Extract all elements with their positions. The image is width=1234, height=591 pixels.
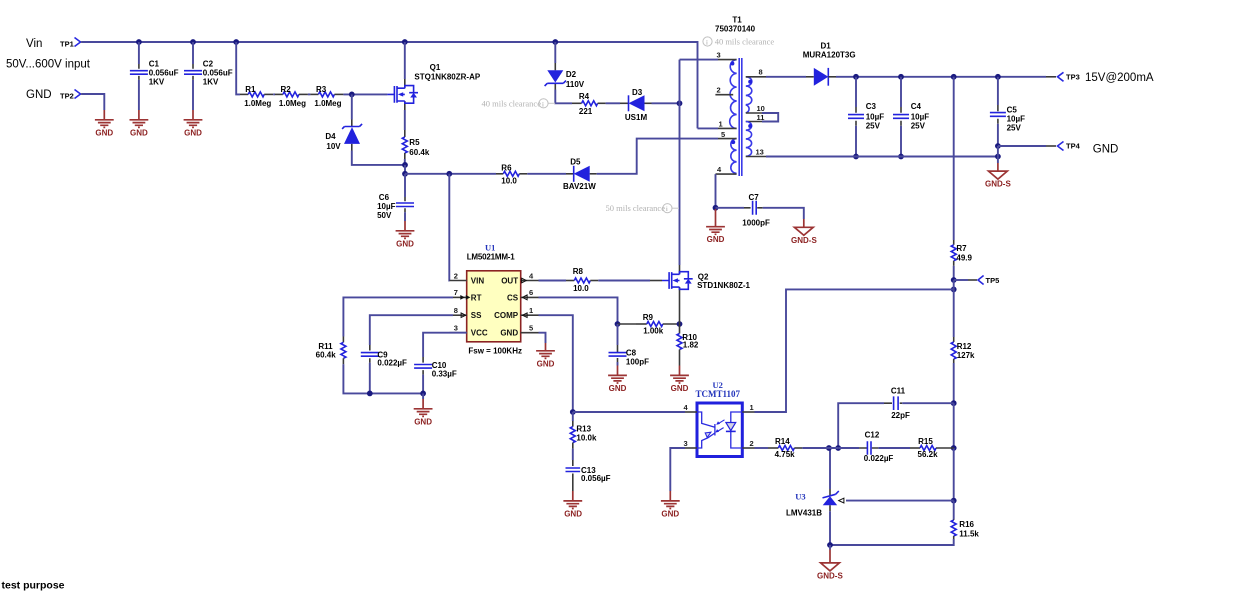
svg-text:GND: GND — [661, 509, 679, 518]
U2 pin 3 — [684, 439, 698, 448]
svg-text:D3: D3 — [632, 88, 643, 97]
T1 pin 13 — [746, 147, 766, 156]
wire Vcc rail — [405, 173, 496, 175]
svg-text:1.0Meg: 1.0Meg — [279, 99, 306, 108]
svg-text:R6: R6 — [501, 163, 512, 172]
svg-text:SS: SS — [471, 311, 482, 320]
junction C11 branch node — [835, 445, 841, 451]
svg-text:10.0: 10.0 — [573, 284, 589, 293]
svg-text:TP3: TP3 — [1066, 73, 1080, 82]
capacitor C2 — [184, 42, 233, 110]
svg-text:TP2: TP2 — [60, 91, 74, 100]
svg-text:C1: C1 — [149, 60, 160, 69]
svg-text:C4: C4 — [911, 102, 922, 111]
junction snubber primary — [677, 100, 683, 106]
svg-text:4.75k: 4.75k — [775, 450, 796, 459]
svg-text:RT: RT — [471, 293, 482, 302]
svg-text:60.4k: 60.4k — [409, 148, 430, 157]
wire pin1 stub — [698, 127, 719, 129]
svg-text:COMP: COMP — [494, 311, 519, 320]
U2 led — [726, 412, 742, 448]
ground GND U1 — [536, 343, 555, 368]
junction R7 top — [951, 74, 957, 80]
transistor Q1 STQ1NK80ZR-AP — [387, 63, 480, 110]
junction C5 TP4 — [995, 143, 1001, 149]
wire TP4 — [998, 145, 1046, 147]
svg-text:U1: U1 — [485, 243, 495, 253]
svg-text:40 mils clearance: 40 mils clearance — [482, 98, 542, 108]
wire link pins 10-11 — [762, 113, 778, 122]
svg-text:110V: 110V — [566, 80, 585, 89]
svg-text:1.0Meg: 1.0Meg — [244, 99, 271, 108]
svg-text:R14: R14 — [775, 437, 790, 446]
capacitor C12 — [838, 430, 910, 463]
wire CS node to R9 — [618, 323, 637, 325]
wire R3 to gate node — [343, 93, 387, 95]
svg-text:GND: GND — [95, 128, 113, 137]
testpoint TP5 — [954, 276, 1000, 286]
resistor R6 — [496, 163, 527, 185]
svg-text:10µF: 10µF — [866, 112, 885, 121]
wire C11 rail down — [953, 403, 955, 448]
svg-text:C8: C8 — [626, 349, 637, 358]
wire OUT to R8 — [539, 280, 567, 282]
svg-text:D4: D4 — [325, 132, 336, 141]
wire feedback to opto — [755, 289, 954, 412]
shunt regulator U3 LMV431B — [786, 448, 839, 545]
svg-text:R9: R9 — [643, 313, 654, 322]
svg-text:Q1: Q1 — [430, 63, 441, 72]
svg-text:GND-S: GND-S — [817, 571, 843, 580]
wire opto pin3 to gnd — [670, 448, 685, 491]
svg-text:R15: R15 — [918, 437, 933, 446]
svg-text:11.5k: 11.5k — [959, 529, 979, 538]
svg-text:49.9: 49.9 — [956, 254, 972, 263]
svg-text:R12: R12 — [957, 342, 972, 351]
svg-text:GND-S: GND-S — [985, 180, 1011, 189]
svg-text:15V@200mA: 15V@200mA — [1085, 72, 1154, 84]
svg-text:i: i — [542, 101, 544, 108]
note 40 mils clearance snubber — [482, 98, 556, 108]
junction R5 D4 — [402, 162, 408, 168]
svg-text:25V: 25V — [911, 121, 926, 130]
wire U3 ref — [839, 498, 954, 503]
svg-text:D2: D2 — [566, 70, 577, 79]
resistor R1 — [240, 85, 273, 108]
svg-text:3: 3 — [684, 439, 688, 448]
svg-text:OUT: OUT — [501, 276, 518, 285]
svg-text:R13: R13 — [576, 425, 591, 434]
svg-text:2: 2 — [750, 439, 754, 448]
svg-text:C2: C2 — [203, 60, 214, 69]
capacitor C3 — [848, 77, 884, 157]
svg-text:R5: R5 — [409, 138, 420, 147]
svg-text:GND: GND — [184, 128, 202, 137]
T1 dot pin11 — [748, 124, 752, 128]
T1 dot pin5 — [731, 140, 735, 144]
ground GND C1 — [130, 110, 149, 137]
junction C9 bottom — [367, 391, 373, 397]
junction C2 rail — [190, 39, 196, 45]
svg-text:127k: 127k — [957, 351, 975, 360]
svg-text:6: 6 — [529, 288, 533, 297]
resistor R3 — [308, 85, 344, 108]
svg-text:LM5021MM-1: LM5021MM-1 — [467, 252, 516, 261]
T1 dot pin3 — [730, 62, 734, 66]
capacitor C5 — [990, 77, 1025, 146]
optocoupler U2 TCMT1107 — [696, 380, 743, 457]
svg-text:C11: C11 — [891, 387, 906, 396]
svg-text:10: 10 — [757, 104, 765, 113]
svg-text:C7: C7 — [749, 193, 760, 202]
svg-text:VIN: VIN — [471, 276, 485, 285]
svg-text:GND: GND — [564, 509, 582, 518]
svg-text:1.0Meg: 1.0Meg — [314, 99, 341, 108]
svg-text:221: 221 — [579, 107, 593, 116]
wire pin8 to D1 — [766, 76, 806, 78]
svg-text:R1: R1 — [245, 85, 256, 94]
svg-text:2: 2 — [454, 271, 458, 280]
svg-text:Fsw = 100KHz: Fsw = 100KHz — [468, 347, 522, 356]
junction TP5 — [951, 277, 957, 283]
svg-text:R2: R2 — [281, 85, 292, 94]
junction U3 ref rail — [951, 498, 957, 504]
svg-text:i: i — [706, 40, 708, 47]
svg-text:TCMT1107: TCMT1107 — [696, 389, 741, 399]
svg-text:C3: C3 — [866, 102, 877, 111]
ground GND opto — [661, 491, 680, 518]
T1 secondary winding 11-13 — [746, 121, 752, 156]
svg-text:GND: GND — [537, 359, 555, 368]
junction C5 bottom rail — [995, 154, 1001, 160]
junction C4 bottom — [898, 154, 904, 160]
wire secondary return rail — [766, 156, 998, 158]
ground GND-S output — [985, 163, 1011, 189]
wire D3 to primary node — [652, 102, 680, 104]
capacitor C13 — [566, 460, 611, 491]
resistor R14 — [768, 437, 802, 459]
T1 core — [739, 58, 742, 176]
T1 bias winding 5-4 — [731, 139, 737, 174]
svg-text:22pF: 22pF — [891, 411, 910, 420]
ground GND C6 — [396, 221, 415, 248]
svg-text:50V...600V input: 50V...600V input — [6, 59, 91, 71]
resistor R16 — [830, 501, 979, 545]
wire CS run — [539, 297, 618, 324]
junction COMP R13 opto — [570, 409, 576, 415]
svg-text:1KV: 1KV — [149, 78, 165, 87]
svg-text:GND-S: GND-S — [791, 236, 817, 245]
resistor R2 — [273, 85, 308, 108]
U1 pin 6 CS — [507, 288, 539, 302]
svg-text:STD1NK80Z-1: STD1NK80Z-1 — [697, 281, 750, 290]
wire R7 node down — [953, 280, 955, 337]
wire Vin rail — [82, 42, 698, 128]
svg-text:GND: GND — [396, 239, 414, 248]
svg-text:10.0k: 10.0k — [576, 434, 597, 443]
junction feedback tap — [951, 287, 957, 293]
T1 pin 5 — [718, 130, 737, 139]
svg-text:GND: GND — [414, 417, 432, 426]
svg-text:R4: R4 — [579, 92, 590, 101]
svg-text:10.0: 10.0 — [501, 176, 517, 185]
resistor R13 — [570, 412, 597, 460]
svg-text:Vin: Vin — [26, 38, 42, 50]
wire R5 node down — [404, 165, 406, 174]
wire U1 gnd — [539, 333, 546, 343]
testpoint TP2 — [60, 90, 84, 101]
junction Q1 drain rail — [402, 39, 408, 45]
svg-text:60.4k: 60.4k — [316, 351, 337, 360]
svg-text:TP1: TP1 — [60, 39, 74, 48]
svg-text:R3: R3 — [316, 85, 327, 94]
wire comp node to opto pin4 — [573, 411, 685, 413]
svg-text:10µF: 10µF — [911, 112, 930, 121]
svg-text:R8: R8 — [573, 267, 584, 276]
junction C4 top — [898, 74, 904, 80]
wire C10 to ground — [422, 393, 424, 399]
svg-text:1: 1 — [719, 120, 723, 129]
svg-text:1000pF: 1000pF — [742, 219, 770, 228]
capacitor C8 — [609, 324, 650, 366]
ground GND T1 — [706, 209, 725, 244]
svg-text:1: 1 — [529, 306, 533, 315]
svg-text:D1: D1 — [821, 42, 832, 51]
svg-text:MURA120T3G: MURA120T3G — [803, 51, 856, 60]
junction R14 node — [826, 445, 832, 451]
testpoint TP3 — [1046, 72, 1080, 81]
T1 pin 2 — [715, 86, 733, 95]
wire R14 to node — [802, 447, 838, 449]
T1 pin 1 — [718, 120, 737, 129]
svg-text:10µF: 10µF — [377, 202, 396, 211]
wire Q2 source down — [679, 295, 681, 324]
op-amp U1 LM5021MM-1 body — [467, 243, 522, 356]
junction R9 R10 Q2 source — [677, 321, 683, 327]
svg-text:0.022µF: 0.022µF — [864, 454, 894, 463]
svg-text:GND: GND — [130, 128, 148, 137]
wire pin3 stub — [680, 59, 719, 61]
wire rail to Q1 drain — [404, 42, 406, 79]
wire COMP run — [539, 315, 573, 412]
capacitor C10 — [414, 357, 457, 393]
svg-text:1KV: 1KV — [203, 78, 219, 87]
svg-text:GND: GND — [707, 235, 725, 244]
U2 phototransistor — [697, 412, 715, 448]
capacitor C11 — [838, 387, 954, 448]
svg-text:GND: GND — [500, 329, 518, 338]
capacitor C7 — [716, 193, 804, 227]
junction R15 rail — [951, 445, 957, 451]
resistor R11 — [316, 337, 346, 365]
svg-text:TP5: TP5 — [986, 276, 1000, 285]
resistor R12 — [951, 337, 975, 403]
resistor R10 — [677, 324, 699, 366]
svg-text:0.33µF: 0.33µF — [432, 369, 457, 378]
capacitor C9 — [361, 345, 407, 393]
svg-text:R16: R16 — [959, 520, 974, 529]
svg-text:1.00k: 1.00k — [643, 327, 664, 336]
capacitor C4 — [893, 77, 929, 157]
wire VIN drop — [448, 174, 450, 281]
zener D2 snubber — [545, 39, 585, 103]
junction Vcc rail — [402, 171, 408, 177]
T1 pin 10 — [746, 104, 765, 113]
U2 pin 1 — [742, 403, 754, 412]
T1 primary winding 3-1 — [730, 60, 737, 129]
ground GND R10 — [670, 366, 689, 393]
wire R4 to D3 — [606, 102, 620, 104]
wire opto pin2 to R14 — [755, 447, 769, 449]
ground GND C2 — [184, 110, 203, 137]
svg-text:STQ1NK80ZR-AP: STQ1NK80ZR-AP — [414, 73, 480, 82]
diode D5 BAV21W — [563, 158, 597, 192]
svg-text:LMV431B: LMV431B — [786, 508, 822, 517]
svg-text:13: 13 — [756, 147, 764, 156]
ground GND-S C7 — [791, 219, 817, 245]
svg-text:R7: R7 — [956, 244, 967, 253]
svg-text:C6: C6 — [379, 193, 390, 202]
svg-text:750370140: 750370140 — [715, 24, 756, 33]
svg-text:3: 3 — [454, 324, 458, 333]
junction gate node D4 — [349, 92, 355, 98]
U2 photon arrows — [715, 420, 724, 433]
svg-text:CS: CS — [507, 293, 519, 302]
U2 pin 2 — [742, 439, 754, 448]
wire output rail 15V — [836, 76, 1046, 78]
svg-text:1: 1 — [750, 403, 754, 412]
testpoint TP1 — [60, 38, 84, 49]
wire D5 to pin5 riser — [597, 139, 718, 174]
wire divider drop — [236, 42, 240, 94]
svg-text:BAV21W: BAV21W — [563, 182, 596, 191]
U1 pin 4 OUT — [501, 271, 538, 285]
note 50 mils clearance — [606, 203, 680, 213]
transformer T1 750370140 — [715, 16, 756, 34]
svg-text:GND: GND — [671, 384, 689, 393]
junction C10 bottom — [420, 391, 426, 397]
svg-text:25V: 25V — [866, 121, 881, 130]
T1 pin 11 — [746, 113, 765, 122]
svg-text:10V: 10V — [326, 142, 341, 151]
svg-text:25V: 25V — [1007, 124, 1022, 133]
ground GND C13 — [563, 491, 582, 518]
junction CS R9 C8 — [615, 321, 621, 327]
U1 pin 2 VIN — [450, 271, 485, 285]
wire rail down to ref — [953, 448, 955, 501]
junction C1 rail — [136, 39, 142, 45]
svg-text:56.2k: 56.2k — [918, 450, 939, 459]
junction divider drop — [233, 39, 239, 45]
svg-text:VCC: VCC — [471, 329, 488, 338]
svg-text:8: 8 — [454, 306, 458, 315]
resistor R7 — [951, 77, 972, 280]
resistor R8 — [566, 267, 598, 293]
junction C5 top — [995, 74, 1001, 80]
wire pin4 down — [715, 174, 717, 208]
wire RT loop — [343, 297, 453, 336]
wire VCC loop — [423, 333, 467, 357]
U1 pin 5 GND — [500, 324, 538, 338]
diode D1 MURA120T3G — [803, 42, 856, 86]
svg-text:0.022µF: 0.022µF — [377, 359, 407, 368]
svg-text:D5: D5 — [570, 158, 581, 167]
ground GND C10 — [414, 399, 433, 426]
wire pin3 to Q2 drain — [679, 60, 681, 265]
svg-text:40 mils clearance: 40 mils clearance — [715, 37, 775, 47]
T1 pin 4 — [716, 165, 737, 174]
svg-text:5: 5 — [721, 130, 725, 139]
svg-text:100pF: 100pF — [626, 357, 649, 366]
svg-text:1.82: 1.82 — [683, 341, 699, 350]
svg-text:C12: C12 — [865, 430, 880, 439]
svg-text:5: 5 — [529, 324, 533, 333]
junction C3 top — [853, 74, 859, 80]
note 40 mils clearance top — [703, 37, 774, 47]
svg-text:7: 7 — [454, 288, 458, 297]
ground GND C8 — [608, 366, 627, 393]
svg-text:US1M: US1M — [625, 113, 648, 122]
resistor R4 — [572, 92, 606, 116]
svg-text:U3: U3 — [795, 491, 805, 501]
svg-text:GND: GND — [1093, 144, 1119, 156]
T1 pin 8 — [746, 68, 766, 77]
svg-text:10µF: 10µF — [1007, 115, 1026, 124]
resistor R9 — [636, 313, 680, 336]
svg-text:C5: C5 — [1007, 106, 1018, 115]
capacitor C1 — [130, 42, 179, 110]
U1 pin 8 SS — [453, 306, 482, 320]
junction VIN drop — [446, 171, 452, 177]
ground GND TP2 — [95, 110, 114, 137]
junction U3 anode — [827, 542, 833, 548]
U1 pin 1 COMP — [494, 306, 538, 320]
svg-text:3: 3 — [717, 51, 721, 60]
junction C3 bottom — [853, 154, 859, 160]
capacitor C6 — [377, 174, 414, 221]
wire C5 node down — [997, 146, 999, 163]
U2 pin 4 — [684, 403, 698, 412]
svg-text:test purpose: test purpose — [2, 580, 65, 591]
svg-text:50V: 50V — [377, 211, 392, 220]
T1 pin 3 — [717, 51, 737, 60]
wire R8 to Q2 gate — [598, 280, 650, 282]
wire R11 bottom rail — [343, 364, 423, 393]
wire SS loop — [370, 315, 453, 345]
diode D3 US1M — [620, 88, 652, 122]
testpoint TP4 — [1046, 142, 1081, 151]
svg-text:2: 2 — [717, 86, 721, 95]
T1 secondary winding 8-10 — [746, 77, 752, 113]
svg-text:0.056uF: 0.056uF — [149, 69, 179, 78]
svg-text:GND: GND — [26, 89, 52, 101]
junction pin4 ground node — [713, 205, 719, 211]
svg-text:0.056µF: 0.056µF — [581, 474, 611, 483]
svg-text:i: i — [666, 206, 668, 213]
svg-text:0.056uF: 0.056uF — [203, 69, 233, 78]
junction C11 rail — [951, 400, 957, 406]
T1 dot pin8 — [748, 80, 752, 84]
transistor Q2 STD1NK80Z-1 — [662, 265, 751, 295]
svg-text:8: 8 — [759, 68, 763, 77]
zener D4 — [325, 94, 405, 164]
wire TP2 to ground — [82, 94, 104, 110]
svg-text:GND: GND — [609, 384, 627, 393]
svg-text:50 mils clearance: 50 mils clearance — [606, 203, 666, 213]
wire R6 to D5 — [527, 173, 566, 175]
U1 pin 3 VCC — [450, 324, 488, 338]
ground GND-S U3 — [817, 545, 843, 580]
